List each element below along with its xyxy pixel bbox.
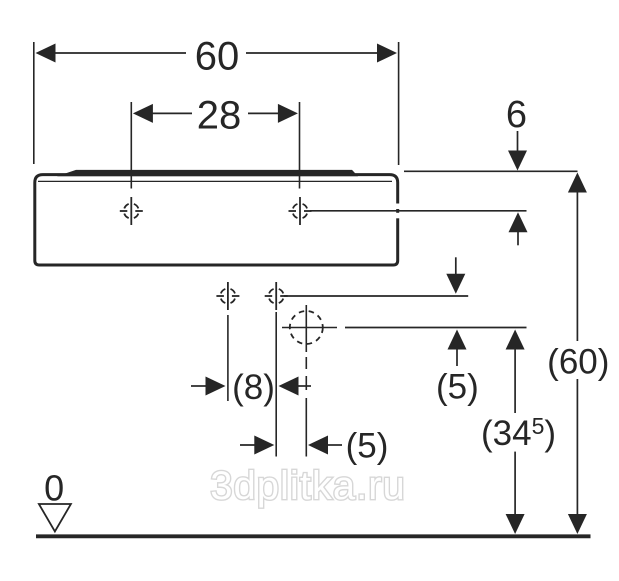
dim (34.5): lower tail — [514, 452, 516, 516]
svg-text:28: 28 — [197, 94, 242, 138]
dim (5) upper: down arrow — [446, 274, 465, 294]
dim (34.5): bottom arrow — [506, 514, 525, 534]
M3 extension line down — [227, 315, 229, 401]
svg-text:6: 6 — [506, 94, 527, 136]
dim 28: left arrow — [133, 104, 153, 123]
washbasin outline — [35, 175, 398, 265]
dim (5) upper: down arrow tail — [455, 257, 457, 277]
white gaps where hole line crosses basin edge — [394, 204, 400, 210]
dim 6: down arrow — [508, 151, 527, 171]
dim 6: lower arrow tail — [517, 231, 519, 245]
svg-text:3dplitka.ru: 3dplitka.ru — [210, 464, 406, 508]
dim 60: line left segment — [54, 52, 186, 54]
faucet circle (dashed) — [290, 311, 323, 344]
svg-text:(60): (60) — [547, 343, 609, 382]
svg-text:60: 60 — [195, 35, 240, 79]
dim (60): upper tail — [576, 191, 578, 341]
washbasin inner edge line — [38, 180, 392, 182]
svg-text:(8): (8) — [232, 368, 275, 407]
svg-text:(5): (5) — [346, 427, 389, 466]
hole mark M1 — [120, 197, 143, 225]
svg-text:(345): (345) — [481, 413, 556, 453]
datum triangle — [39, 504, 71, 532]
hole mark M3 — [216, 282, 239, 310]
reference line top of basin — [404, 170, 578, 172]
dim (8): left arrow — [206, 377, 226, 396]
dim (60): lower tail — [576, 379, 578, 516]
dim 28: line right segment — [248, 112, 280, 114]
dim (5) lower: right arrow — [308, 436, 328, 455]
dim (8): right arrow tail — [297, 385, 311, 387]
dim (5) upper: up arrow tail — [456, 348, 458, 366]
dim (34.5): top arrow — [506, 330, 525, 350]
reference line faucet level — [345, 327, 527, 329]
dim 60: right extension line — [398, 42, 400, 165]
dim 28: line left segment — [151, 112, 192, 114]
dim (34.5): upper tail — [514, 348, 516, 413]
hole mark M2 — [289, 197, 312, 225]
washbasin top rim band — [57, 170, 358, 176]
dim 6: upper arrow tail — [517, 131, 519, 152]
dim 28: right extension line — [299, 102, 301, 189]
faucet circle vertical crosshair — [305, 305, 307, 352]
faucet circle horizontal crosshair — [282, 327, 337, 329]
dim (60): bottom arrow — [568, 514, 587, 534]
dim 60: left extension line — [33, 42, 35, 164]
dim (8): left arrow tail — [191, 385, 207, 387]
reference line upper holes — [310, 210, 527, 212]
dim (5) lower: right arrow tail — [327, 444, 342, 446]
dim 28: left extension line — [130, 102, 132, 189]
floor line — [36, 534, 591, 538]
hole mark M4 — [265, 282, 288, 310]
dim 60: left arrow — [36, 44, 56, 63]
dim 60: right arrow — [377, 44, 397, 63]
dim 6: up arrow — [509, 212, 528, 232]
dim (8): right arrow — [279, 377, 299, 396]
dim 60: line right segment — [246, 52, 378, 54]
dim (5) lower: left arrow tail — [240, 444, 257, 446]
dim (60): top arrow — [568, 173, 587, 193]
faucet circle dashed extension down — [305, 357, 307, 457]
svg-text:(5): (5) — [436, 368, 479, 407]
M4 extension line down — [275, 312, 277, 457]
dim 28: right arrow — [278, 104, 298, 123]
reference line lower holes — [284, 295, 468, 297]
dim (5) upper: up arrow — [448, 330, 467, 350]
svg-text:0: 0 — [44, 468, 64, 509]
dim (5) lower: left arrow — [254, 436, 274, 455]
